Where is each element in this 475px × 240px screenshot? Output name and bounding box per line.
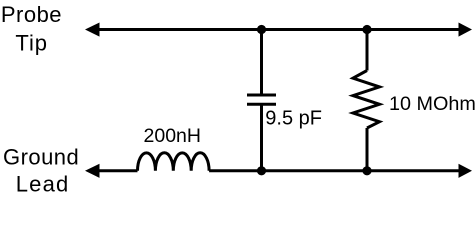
resistor R1 zigzag bbox=[353, 71, 380, 129]
wire resistor top lead bbox=[366, 30, 369, 71]
junction dot top-left bbox=[257, 25, 266, 34]
svg-text:Tip: Tip bbox=[15, 31, 47, 56]
capacitor C1 bbox=[247, 95, 276, 104]
junction dot top-right bbox=[362, 25, 371, 34]
arrowhead bottom-right bbox=[459, 164, 473, 178]
svg-text:10 MOhm: 10 MOhm bbox=[389, 93, 475, 115]
svg-text:Lead: Lead bbox=[16, 172, 70, 197]
wire bottom rail right segment bbox=[209, 169, 460, 172]
node label Probe Tip bbox=[1, 2, 62, 56]
wire capacitor top lead bbox=[260, 30, 263, 96]
wire resistor bottom lead bbox=[366, 128, 369, 171]
wire capacitor bottom lead bbox=[260, 104, 263, 171]
arrowhead top-right bbox=[459, 23, 473, 37]
svg-text:Ground: Ground bbox=[3, 145, 79, 170]
svg-text:200nH: 200nH bbox=[144, 125, 201, 147]
junction dot bottom-left bbox=[257, 166, 266, 175]
arrowhead top-left bbox=[85, 23, 100, 37]
arrowhead bottom-left bbox=[85, 164, 100, 178]
svg-text:9.5 pF: 9.5 pF bbox=[265, 108, 322, 130]
wire bottom rail left segment bbox=[97, 169, 138, 172]
inductor L1 200nH bbox=[138, 153, 210, 171]
svg-text:Probe: Probe bbox=[1, 2, 62, 27]
junction dot bottom-right bbox=[362, 166, 371, 175]
node label Ground Lead bbox=[3, 145, 79, 197]
wire top rail bbox=[97, 28, 460, 31]
